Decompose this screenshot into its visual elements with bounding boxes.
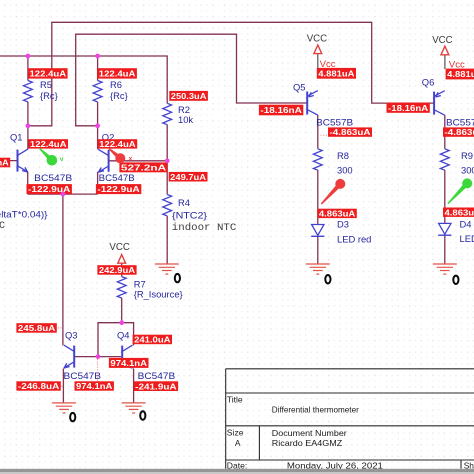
window bottom edge strip: [0, 469, 474, 472]
wire Q5 collector to R8: [317, 115, 319, 149]
resistor R8 300: [313, 149, 322, 170]
svg-text:R6: R6: [110, 79, 122, 90]
wire Q2 collector to Q5 base (inner loop): [76, 34, 307, 126]
svg-text:BC547B: BC547B: [34, 173, 72, 183]
ground under R4: [155, 263, 179, 265]
current label Vcc 4.881uA (Q5): [317, 68, 356, 79]
svg-text:D3: D3: [337, 219, 349, 230]
wire R5 top lead: [27, 56, 29, 81]
svg-text:v: v: [60, 156, 64, 163]
junction Q2 collector: [95, 123, 100, 128]
junction emitter tail: [61, 192, 66, 197]
wire R8 to D3: [317, 170, 319, 225]
svg-text:LED red: LED red: [337, 234, 371, 245]
wire R6 top lead: [97, 56, 99, 81]
wire Q3-Q4 base rail: [74, 356, 121, 358]
wire R5 bottom lead: [27, 102, 29, 126]
svg-text:-246.8uA: -246.8uA: [18, 381, 59, 391]
current label D4 4.863uA: [443, 208, 474, 217]
diode D4 LED green: [439, 223, 451, 234]
svg-text:122.4uA: 122.4uA: [30, 139, 67, 149]
svg-text:242.9uA: 242.9uA: [99, 265, 135, 275]
wire Q1 collector to Q6 base (outer loop): [28, 22, 434, 126]
current label Q6 base -18.16nA: [387, 103, 430, 113]
ground under Q3: [52, 402, 76, 404]
svg-text:{Rc}: {Rc}: [40, 90, 58, 101]
svg-text:BC547B: BC547B: [64, 371, 102, 381]
resistor R9 300: [440, 149, 449, 170]
VCC symbol above R7: [118, 255, 126, 264]
transistor Q5 (PNP): [306, 92, 308, 115]
probe marker (red) at Q2: [109, 148, 122, 160]
svg-text:974.1nA: 974.1nA: [110, 358, 147, 368]
current label Q2 base 527.2nA: [119, 162, 167, 172]
current label Q4 emitter -241.9uA: [134, 381, 178, 391]
svg-text:-18.16nA: -18.16nA: [260, 105, 301, 115]
wire Q3 emitter to ground: [62, 368, 64, 403]
title block frame: [226, 369, 474, 460]
svg-text:974.1nA: 974.1nA: [76, 381, 112, 391]
svg-text:250.3uA: 250.3uA: [171, 91, 207, 101]
current label Q6 collector -4.863uA: [443, 127, 474, 136]
wire emitter tail rail: [28, 193, 98, 195]
svg-text:Q5: Q5: [293, 81, 306, 92]
current label Q3 emitter -246.8uA: [16, 381, 60, 390]
wire VCC to R7: [121, 263, 123, 276]
wire Q1 emitter: [27, 172, 29, 194]
junction R6 top: [95, 54, 100, 59]
junction base rail: [96, 354, 101, 359]
svg-text:249.7uA: 249.7uA: [170, 172, 206, 182]
transistor Q6 (PNP): [433, 92, 435, 115]
diode D3 LED red: [312, 225, 324, 236]
svg-text:4.863uA: 4.863uA: [319, 209, 355, 219]
wire D3 to ground: [317, 236, 319, 264]
junction R2/R4/Q2 base: [165, 158, 170, 163]
current label Vcc 4.881uA (Q6): [446, 69, 474, 80]
current label R4 249.7uA: [169, 172, 208, 182]
current label Q4 base 974.1nA: [109, 358, 149, 368]
svg-text:Title: Title: [227, 394, 243, 404]
wire node to Q4 collector: [122, 323, 134, 346]
svg-text:10k: 10k: [178, 114, 193, 125]
wire Q2 collector stub: [97, 126, 99, 149]
wire Q6 collector to R9: [444, 115, 446, 149]
wire R6 bottom lead: [97, 102, 99, 126]
wire Q1 collector stub: [27, 126, 29, 149]
current label Q4 collector 241.0uA: [133, 335, 172, 345]
wire tail to Q3 collector: [62, 194, 64, 345]
svg-text:VCC: VCC: [432, 35, 452, 46]
current label Q1 collector 122.4uA: [28, 139, 68, 148]
probe marker (green) at D4: [447, 182, 469, 204]
junction Q1 collector: [26, 123, 31, 128]
transistor Q2: [108, 150, 110, 172]
probe marker (red) at D3: [321, 182, 342, 204]
svg-text:Q1: Q1: [10, 132, 23, 143]
wire VCC rail to R2 top: [0, 56, 167, 103]
svg-text:Differential thermometer: Differential thermometer: [272, 404, 359, 414]
svg-text:245.8uA: 245.8uA: [18, 323, 55, 333]
svg-text:Document Number: Document Number: [272, 428, 347, 438]
current label R2 250.3uA: [169, 91, 208, 101]
svg-text:{Rntc*(1+deltaT*0.04)}: {Rntc*(1+deltaT*0.04)}: [0, 209, 48, 219]
svg-text:R7: R7: [134, 278, 146, 289]
svg-text:4.881uA: 4.881uA: [447, 69, 474, 79]
svg-text:VCC: VCC: [109, 242, 129, 253]
current label R7 242.9uA: [97, 265, 136, 275]
transistor Q3: [73, 346, 75, 368]
svg-text:527.2nA: 527.2nA: [121, 162, 166, 172]
current label R5 122.4uA: [28, 68, 68, 78]
svg-text:241.0uA: 241.0uA: [134, 335, 170, 345]
leader to Q3 collector label: [58, 327, 62, 329]
resistor R2 10k: [163, 103, 172, 124]
label 0 (Q4 ground): [140, 411, 145, 419]
wire Q4 emitter to ground: [133, 368, 135, 403]
svg-text:Size: Size: [227, 428, 244, 438]
transistor Q1: [17, 150, 19, 172]
svg-text:-4.863uA: -4.863uA: [330, 127, 371, 137]
svg-text:{Rc}: {Rc}: [110, 90, 128, 101]
svg-text:x: x: [129, 156, 133, 163]
svg-text:122.4uA: 122.4uA: [99, 139, 136, 149]
leader to Q3 emitter label: [61, 385, 63, 387]
svg-text:outdoor NTC: outdoor NTC: [0, 220, 5, 232]
leader to Q5 collector label: [318, 134, 327, 136]
label 0 (R4 ground): [175, 274, 180, 282]
current label R6 122.4uA: [97, 68, 137, 78]
transistor Q4: [121, 346, 123, 368]
svg-text:1.221mA: 1.221mA: [0, 158, 9, 168]
current label Q5 base -18.16nA: [259, 105, 303, 116]
svg-text:-122.9uA: -122.9uA: [97, 184, 139, 194]
svg-text:indoor NTC: indoor NTC: [172, 222, 237, 234]
svg-text:{NTC2}: {NTC2}: [172, 209, 207, 220]
ground under D4: [433, 263, 457, 265]
svg-text:BC557B: BC557B: [446, 118, 474, 128]
svg-text:LED green: LED green: [460, 233, 474, 244]
svg-text:A: A: [235, 438, 241, 448]
svg-text:4.863uA: 4.863uA: [445, 207, 474, 217]
svg-text:Ricardo EA4GMZ: Ricardo EA4GMZ: [272, 438, 343, 448]
current label Q5 collector -4.863uA: [328, 127, 372, 136]
junction R7/Q4: [119, 320, 124, 325]
wire Q6 emitter to VCC (stem): [444, 55, 446, 69]
svg-text:R8: R8: [337, 150, 349, 161]
leader to base current label: [97, 359, 99, 381]
wire R2 bottom lead: [166, 125, 168, 161]
resistor R6 {Rc}: [93, 81, 102, 102]
current label Q1 emitter -122.9uA: [27, 184, 72, 194]
resistor R4 {NTC2}: [163, 195, 172, 216]
ground under D3: [306, 263, 330, 265]
svg-text:-241.9uA: -241.9uA: [135, 381, 176, 391]
svg-text:BC547B: BC547B: [138, 371, 176, 381]
svg-text:122.4uA: 122.4uA: [30, 69, 67, 79]
current label D3 4.863uA: [317, 209, 356, 218]
svg-text:Q6: Q6: [422, 77, 435, 88]
svg-text:Q3: Q3: [65, 330, 78, 341]
svg-text:Q4: Q4: [117, 329, 130, 340]
wire D4 to ground: [444, 235, 446, 264]
current label 1.221mA (clipped): [0, 158, 10, 168]
svg-text:{R_Isource}: {R_Isource}: [134, 289, 183, 300]
current label Q2 emitter -122.9uA: [96, 184, 141, 194]
wire R7 bottom to node: [121, 298, 123, 323]
wire R4 top lead: [166, 161, 168, 195]
wire Q4 diode connection: [98, 323, 122, 357]
svg-text:R9: R9: [461, 150, 473, 161]
resistor R7 {R_Isource}: [117, 277, 126, 298]
svg-text:BC557B: BC557B: [316, 118, 353, 128]
VCC symbol above Q6: [441, 46, 449, 55]
wire Q2 base to R2/R4 node: [108, 160, 167, 162]
svg-text:BC547B: BC547B: [99, 173, 135, 183]
svg-text:300: 300: [461, 164, 474, 175]
ground under Q4: [122, 402, 146, 404]
svg-text:D4: D4: [460, 219, 472, 230]
label 0 (Q3 ground): [70, 413, 75, 421]
wire R4 to ground: [166, 216, 168, 264]
resistor R5 {Rc}: [24, 81, 33, 102]
svg-text:VCC: VCC: [307, 34, 327, 45]
svg-text:-18.16nA: -18.16nA: [388, 103, 428, 113]
wire Q2 emitter: [97, 172, 99, 194]
current label Q2 collector 122.4uA: [98, 139, 138, 148]
svg-text:4.881uA: 4.881uA: [318, 68, 354, 78]
junction R5 top: [26, 54, 31, 59]
VCC symbol above Q5: [314, 45, 322, 54]
svg-text:R5: R5: [40, 79, 52, 90]
svg-text:122.4uA: 122.4uA: [99, 69, 136, 79]
wire R9 to D4: [444, 170, 446, 224]
current label Q3 collector 245.8uA: [16, 323, 56, 333]
svg-text:R4: R4: [178, 197, 190, 208]
svg-text:300: 300: [337, 164, 353, 175]
label 0 (D3 ground): [325, 275, 330, 283]
label 0 (D4 ground): [453, 276, 458, 284]
wire Q5 emitter to VCC (stem): [317, 54, 319, 69]
svg-text:-4.863uA: -4.863uA: [445, 127, 474, 137]
wire Q1 base (cut at left edge): [0, 160, 17, 162]
probe marker (green) at Q1: [39, 148, 53, 162]
current label Q3 base 974.1nA: [75, 381, 114, 390]
